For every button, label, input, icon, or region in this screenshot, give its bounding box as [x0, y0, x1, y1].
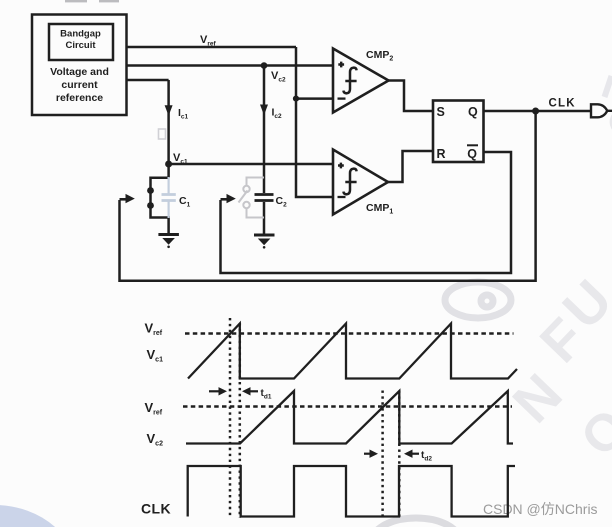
switch S2 (faded, open): [239, 178, 265, 218]
CMP1 hysteresis symbol: [343, 169, 356, 195]
svg-text:reference: reference: [56, 92, 103, 104]
switch S1 contacts (closed): [147, 187, 154, 209]
CMP2 hysteresis symbol: [343, 68, 356, 94]
latch pin labels S Q R Qbar: [437, 105, 479, 161]
wire CMP1 out to R: [388, 151, 433, 182]
watermark: circle swirl logo: [445, 282, 511, 318]
CLK output buffer: [591, 104, 607, 117]
wire Q to CLK buffer: [484, 110, 592, 113]
svg-text:S: S: [437, 105, 445, 119]
svg-text:Bandgap: Bandgap: [60, 29, 101, 40]
switch control arrow 2: [221, 194, 236, 203]
node Vc1 junction: [165, 161, 172, 168]
wire CLK feedback outer loop: [120, 111, 536, 281]
dotted marker line 1: [229, 318, 232, 518]
waveform labels: [141, 321, 171, 517]
wire CMP2 out to S: [389, 81, 434, 112]
dashed Vref level row1: [185, 332, 514, 335]
wire Ic2 vertical: [263, 66, 266, 194]
svg-text:Q: Q: [467, 147, 477, 161]
Qbar overline: [467, 144, 478, 146]
capacitor C2: [255, 195, 274, 201]
svg-text:CLK: CLK: [549, 98, 576, 110]
node CLK junction: [532, 108, 539, 115]
svg-text:current: current: [61, 79, 98, 91]
dotted marker line 4: [398, 391, 401, 519]
ground G1: [158, 233, 179, 248]
wire Ic1 vertical: [167, 80, 170, 178]
wire Vref from box: [127, 46, 297, 49]
svg-text:Voltage and: Voltage and: [50, 66, 109, 78]
waveform Vc2 sawtooth: [186, 391, 513, 444]
op-amp CMP1: [333, 150, 388, 215]
SR latch U1: [433, 101, 484, 163]
switch control arrow 1: [120, 194, 135, 203]
svg-text:Circuit: Circuit: [65, 40, 96, 51]
node Vref junction: [293, 96, 299, 102]
watermark: diagonal letters: [500, 91, 612, 468]
CMP1 input polarity marks: [338, 163, 346, 197]
svg-text:CMP1: CMP1: [366, 202, 393, 216]
wire C1 switch branch: [151, 178, 169, 234]
dotted marker line 2: [239, 323, 242, 518]
box text: [50, 29, 109, 105]
op-amp CMP2: [333, 49, 389, 113]
wire Vc1 to CMP1 plus: [169, 163, 333, 166]
svg-text:CSDN @仿NChris: CSDN @仿NChris: [483, 501, 598, 517]
svg-text:CLK: CLK: [141, 501, 171, 517]
wire C2 below: [263, 202, 266, 235]
wire CLK stub to edge: [607, 110, 612, 112]
CMP2 input polarity marks: [338, 62, 346, 99]
wire to Ic1 branch: [127, 79, 169, 82]
ground G2: [254, 234, 275, 249]
wire to CMP2 plus: [127, 64, 334, 67]
faint artifact glyph: [159, 129, 166, 139]
svg-text:Q: Q: [468, 105, 478, 119]
watermark: bottom-center gray arc: [372, 518, 460, 527]
dashed Vref level row2: [183, 405, 512, 408]
annotation arrows td2: [364, 450, 419, 458]
annotation arrows td1: [209, 387, 258, 395]
wire Vref vertical: [296, 47, 333, 197]
wire Vref to CMP2 minus: [296, 97, 333, 100]
node Ic2 junction: [261, 62, 268, 69]
labels circuit: [173, 34, 576, 209]
current arrow Ic1: [165, 105, 173, 116]
capacitor C1 (faded): [162, 177, 176, 218]
watermark: bottom-left blue blob: [0, 505, 80, 527]
dotted marker line 3: [381, 391, 384, 519]
waveform Vc1 sawtooth: [188, 324, 517, 379]
svg-text:R: R: [437, 147, 446, 161]
bandgap box inner: [49, 24, 113, 60]
watermark: right-edge sliver: [605, 76, 612, 97]
bandgap box outer: [32, 15, 127, 116]
current arrow Ic2: [260, 105, 268, 116]
svg-text:CMP2: CMP2: [366, 49, 393, 63]
waveform CLK: [188, 466, 515, 517]
wire Qbar feedback inner loop: [221, 152, 512, 273]
top edge crop marks: [65, 0, 87, 2]
